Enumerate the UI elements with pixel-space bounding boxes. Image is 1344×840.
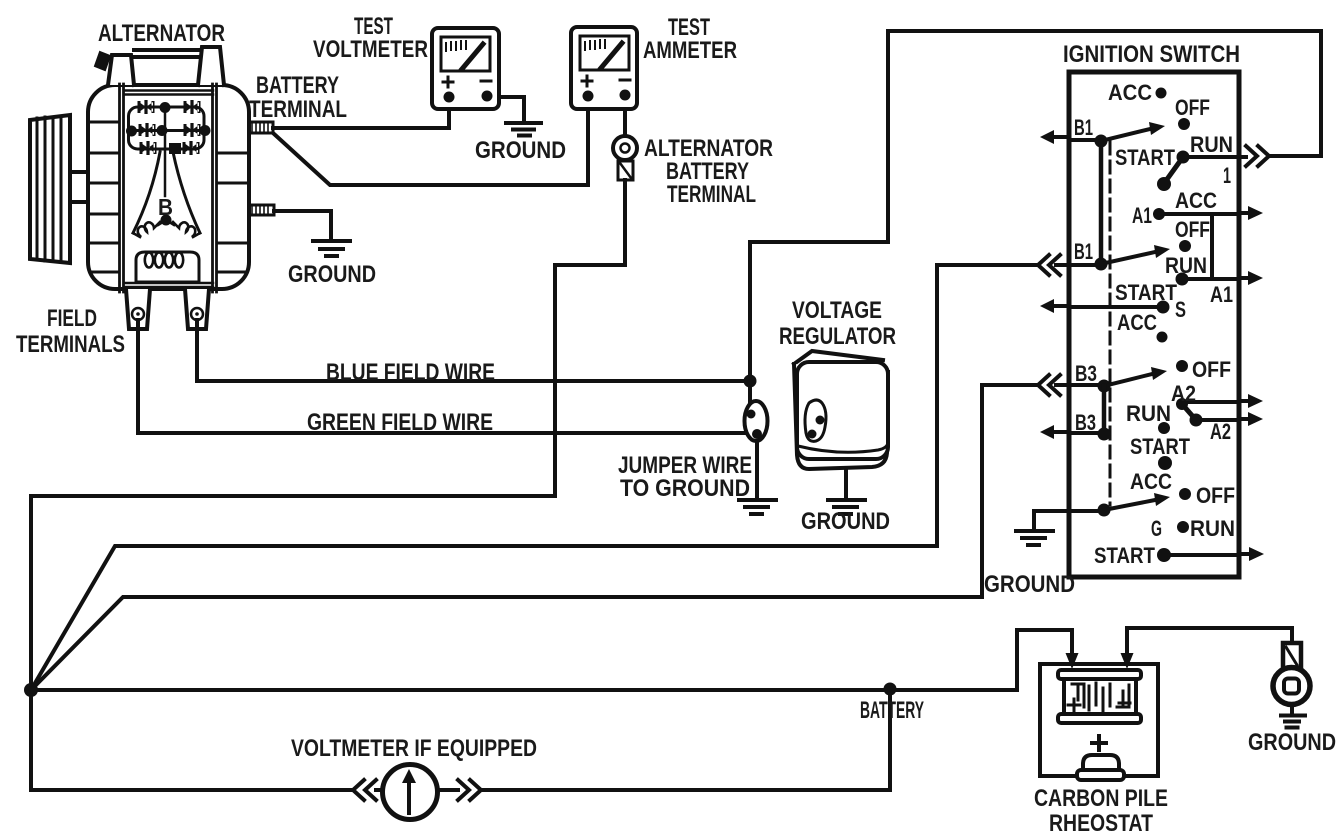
svg-text:RUN: RUN xyxy=(1126,401,1171,426)
svg-text:RHEOSTAT: RHEOSTAT xyxy=(1049,810,1153,837)
bracket A1 run xyxy=(1210,214,1214,278)
diode D2 xyxy=(184,100,201,114)
svg-text:START: START xyxy=(1115,145,1175,170)
svg-text:B1: B1 xyxy=(1074,115,1093,140)
node OFF 4 xyxy=(1179,488,1191,500)
test ammeter M2 xyxy=(571,27,637,109)
svg-text:VOLTMETER: VOLTMETER xyxy=(313,36,428,63)
svg-text:BATTERY: BATTERY xyxy=(256,72,339,99)
node A1 acc xyxy=(1153,208,1165,220)
voltmeter if equipped chevrons left xyxy=(353,780,376,800)
wire A2 top out xyxy=(1182,401,1251,402)
alternator shaft xyxy=(70,172,88,202)
field terminal tab left xyxy=(126,289,150,329)
wire blue field from right field terminal xyxy=(197,320,750,381)
svg-text:B3: B3 xyxy=(1075,361,1097,386)
svg-text:OFF: OFF xyxy=(1175,95,1210,120)
terminal B1 stub arrow xyxy=(1052,137,1101,140)
svg-text:VOLTMETER IF EQUIPPED: VOLTMETER IF EQUIPPED xyxy=(291,735,537,762)
ignition switch gang divider dashed xyxy=(1109,142,1112,505)
ground regulator xyxy=(828,500,865,514)
wire START 4 out xyxy=(1164,554,1251,555)
svg-text:RUN: RUN xyxy=(1165,253,1207,278)
wire A2 bottom out xyxy=(1196,419,1251,420)
svg-text:GROUND: GROUND xyxy=(801,508,890,535)
svg-text:BATTERY: BATTERY xyxy=(860,697,924,724)
battery BAT1 xyxy=(1058,670,1141,723)
carbon pile rheostat xyxy=(1077,755,1124,780)
node stator star xyxy=(161,215,172,226)
switch arm A2 xyxy=(1182,404,1196,420)
ground ignition switch xyxy=(1016,531,1053,545)
wire ring terminal down-left-down xyxy=(31,180,625,690)
svg-text:B3: B3 xyxy=(1075,410,1096,435)
svg-text:TERMINAL: TERMINAL xyxy=(249,96,347,123)
ground stud xyxy=(249,205,274,215)
field terminal tab right xyxy=(185,289,209,329)
svg-text:IGNITION SWITCH: IGNITION SWITCH xyxy=(1063,41,1240,68)
node ACC 3 xyxy=(1157,332,1168,343)
svg-text:ACC: ACC xyxy=(1117,310,1157,335)
wire voltmeter line to battery drop xyxy=(481,788,890,792)
ALTERNATOR-SECTION xyxy=(30,47,274,329)
node battery feed junction xyxy=(884,683,897,696)
ground terminal lug bottom right xyxy=(1273,643,1310,714)
alternator pulley xyxy=(30,115,88,263)
test voltmeter M1 xyxy=(432,28,499,109)
svg-text:START: START xyxy=(1115,280,1177,305)
svg-text:A2: A2 xyxy=(1210,419,1231,444)
svg-text:CARBON PILE: CARBON PILE xyxy=(1034,785,1168,812)
ground voltmeter xyxy=(506,123,541,136)
node B3 bottom xyxy=(1098,428,1111,441)
node RUN 2 xyxy=(1176,273,1189,286)
svg-text:REGULATOR: REGULATOR xyxy=(779,323,896,350)
wire junction diagonal to B3 feed xyxy=(31,385,1036,690)
connector chevrons run out xyxy=(1246,146,1269,166)
svg-text:GROUND: GROUND xyxy=(984,571,1075,598)
battery negative lead arrowhead xyxy=(1121,653,1134,669)
svg-text:OFF: OFF xyxy=(1175,217,1210,242)
switch arm START 1 xyxy=(1165,157,1183,182)
node diode mid-right xyxy=(200,125,211,136)
wire voltmeter minus to ground xyxy=(492,97,524,122)
node diode mid-left xyxy=(126,126,137,137)
switch arm B1-OFF 2 xyxy=(1101,252,1155,264)
stator winding bell xyxy=(133,152,200,233)
svg-text:RUN: RUN xyxy=(1190,132,1233,157)
wire ammeter minus to ring terminal xyxy=(623,102,627,136)
svg-text:TERMINAL: TERMINAL xyxy=(667,181,756,208)
stator coil left xyxy=(133,222,160,237)
wire ignition feed down from top loop xyxy=(750,31,1321,381)
svg-text:TO GROUND: TO GROUND xyxy=(620,475,750,502)
bus B3 to B3 xyxy=(1102,386,1107,434)
diode row middle wire xyxy=(129,129,206,132)
switch arm GND-OFF xyxy=(1104,500,1155,510)
carbon pile rheostat plus xyxy=(1092,736,1106,750)
svg-text:AMMETER: AMMETER xyxy=(643,37,737,64)
svg-text:GROUND: GROUND xyxy=(1248,729,1336,756)
wire ground arm to ground xyxy=(1034,511,1104,529)
node A2 bottom xyxy=(1190,414,1203,427)
battery terminal stud xyxy=(249,122,273,133)
wire battery stud to test voltmeter plus xyxy=(273,103,449,128)
wire A1 to ACC arrow out xyxy=(1159,212,1239,216)
svg-text:FIELD: FIELD xyxy=(47,305,97,332)
ignition switch box xyxy=(1069,72,1239,577)
connector chevrons B1 left xyxy=(1038,255,1060,275)
svg-text:A1: A1 xyxy=(1210,282,1233,307)
svg-text:OFF: OFF xyxy=(1196,483,1235,508)
wire ground stud to ground xyxy=(274,211,331,240)
alternator through-bolt frame xyxy=(120,84,217,292)
wire battery minus to ground terminal xyxy=(1127,628,1292,655)
diode D1 xyxy=(138,100,155,114)
svg-text:ACC: ACC xyxy=(1175,188,1217,213)
battery enclosure loop xyxy=(1040,664,1158,776)
node blue field junction xyxy=(744,375,757,388)
svg-text:B1: B1 xyxy=(1074,239,1093,264)
stator centre lead to B xyxy=(164,108,167,196)
METERS-SECTION xyxy=(432,27,637,109)
field coil xyxy=(136,252,199,282)
node START 1 xyxy=(1157,177,1171,191)
wire RUN 2 out xyxy=(1182,278,1251,279)
node OFF 2 xyxy=(1179,240,1191,252)
svg-text:A2: A2 xyxy=(1171,381,1196,406)
voltmeter if equipped gauge xyxy=(376,765,458,820)
voltage regulator body xyxy=(794,351,888,469)
svg-text:1: 1 xyxy=(1223,163,1231,188)
diode D3 xyxy=(139,123,156,137)
node RUN 4 xyxy=(1177,521,1189,533)
terminal S stub arrow xyxy=(1052,304,1069,308)
voltage regulator connector xyxy=(805,400,826,441)
REGULATOR-SECTION xyxy=(794,351,888,514)
svg-text:BLUE FIELD WIRE: BLUE FIELD WIRE xyxy=(326,359,495,386)
stator coil right xyxy=(173,222,200,237)
node main junction xyxy=(24,683,38,697)
svg-text:GROUND: GROUND xyxy=(288,261,376,288)
node ACC 1 xyxy=(1156,88,1167,99)
wire RUN 1 out xyxy=(1183,155,1246,159)
voltmeter if equipped chevrons right xyxy=(458,780,481,800)
node B1 bottom xyxy=(1095,258,1108,271)
diode D5 xyxy=(140,141,157,155)
diode bridge loop xyxy=(129,107,205,149)
node ground arm pivot xyxy=(1098,504,1111,517)
node green field at jumper xyxy=(746,427,756,437)
terminal B3 stub arrow xyxy=(1052,432,1104,433)
wire chevron to switch edge B1 xyxy=(1056,263,1101,267)
node START S xyxy=(1157,301,1170,314)
node START 4 xyxy=(1157,548,1171,562)
svg-text:VOLTAGE: VOLTAGE xyxy=(792,297,882,324)
svg-text:START: START xyxy=(1094,543,1155,568)
wire battery stud diagonal to test ammeter plus xyxy=(273,103,588,185)
node START 3 xyxy=(1158,456,1172,470)
svg-text:B: B xyxy=(158,194,173,220)
node B3 top xyxy=(1098,380,1111,393)
alternator body xyxy=(88,85,249,289)
ground alternator xyxy=(313,241,350,256)
BATTERY-SECTION xyxy=(1040,653,1158,780)
switch arm B1-OFF xyxy=(1101,129,1150,141)
node B1 top xyxy=(1095,135,1108,148)
node A2 top xyxy=(1176,398,1188,410)
alternator body ribs left xyxy=(90,122,118,272)
svg-text:A1: A1 xyxy=(1132,203,1152,228)
alternator body ribs right xyxy=(219,153,247,272)
alternator top bar xyxy=(134,50,198,57)
node OFF 1 xyxy=(1178,118,1190,130)
wire S row in xyxy=(1069,305,1163,309)
wire green field from left field terminal xyxy=(138,320,746,433)
svg-text:S: S xyxy=(1175,297,1186,322)
svg-text:ACC: ACC xyxy=(1108,80,1152,105)
wire junction to battery positive xyxy=(31,630,1072,690)
wire junction down to voltmeter line xyxy=(31,689,890,790)
node OFF 3 xyxy=(1176,360,1188,372)
alternator mounting lug right xyxy=(198,47,224,85)
connector chevrons B3 left xyxy=(1038,375,1060,395)
ground jumper wire xyxy=(739,500,776,514)
svg-text:ALTERNATOR: ALTERNATOR xyxy=(98,20,225,47)
svg-text:ACC: ACC xyxy=(1130,469,1172,494)
alternator mounting lug left xyxy=(108,55,134,85)
svg-text:G: G xyxy=(1151,516,1162,541)
jumper wire loop xyxy=(745,381,768,498)
wire chevron to switch edge B3 xyxy=(1056,383,1104,387)
svg-text:GREEN FIELD WIRE: GREEN FIELD WIRE xyxy=(307,409,493,436)
svg-text:RUN: RUN xyxy=(1190,516,1235,541)
alternator lug bolt xyxy=(95,52,110,70)
switch arm B3-OFF xyxy=(1104,374,1152,386)
diode D6 xyxy=(183,141,200,155)
svg-text:START: START xyxy=(1130,434,1190,459)
wire regulator to ground xyxy=(844,470,848,498)
battery positive lead arrowhead xyxy=(1066,653,1079,669)
field coil loops xyxy=(145,253,153,268)
alternator battery terminal ring lug xyxy=(613,136,637,180)
SWITCH-SECTION xyxy=(1016,72,1264,577)
node diode mid-centre xyxy=(157,125,168,136)
node diode top xyxy=(160,102,171,113)
ground bottom right xyxy=(1281,716,1305,728)
svg-text:OFF: OFF xyxy=(1192,357,1231,382)
svg-text:GROUND: GROUND xyxy=(475,137,566,164)
diode D4 xyxy=(184,123,201,137)
node RUN 1 xyxy=(1177,151,1190,164)
svg-text:TERMINALS: TERMINALS xyxy=(16,331,125,358)
node diode bottom xyxy=(169,143,181,154)
wire junction diagonal to B1 feed xyxy=(31,265,1036,690)
node RUN 3 xyxy=(1158,422,1170,434)
bus B1 to B1 xyxy=(1099,141,1104,264)
